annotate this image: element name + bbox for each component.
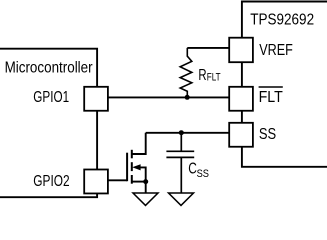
label RFLT <box>198 67 220 84</box>
ground under MOSFET <box>133 193 158 205</box>
transistor Q1 drain lead <box>132 133 146 154</box>
pin VREF box <box>229 38 253 63</box>
capacitor CSS <box>166 133 194 193</box>
pin SS box <box>229 123 253 147</box>
block TPS92692 border <box>242 2 327 167</box>
wire GPIO1 to FLT pin <box>108 96 229 98</box>
label CSS <box>188 161 209 181</box>
pin FLT label with overline <box>259 87 283 106</box>
svg-text:VREF: VREF <box>259 42 293 59</box>
pin GPIO1 box <box>84 87 108 111</box>
svg-text:FLT: FLT <box>259 89 283 106</box>
block Microcontroller border <box>0 49 97 198</box>
node junction capacitor and SS wire <box>179 130 184 135</box>
wire VREF pin to resistor top <box>187 47 229 49</box>
wire source to ground <box>145 182 147 193</box>
node source junction <box>143 179 148 184</box>
svg-text:TPS92692: TPS92692 <box>250 11 314 28</box>
svg-text:GPIO2: GPIO2 <box>33 173 69 190</box>
transistor Q1 body lead with arrow <box>132 164 146 181</box>
pin FLT box <box>229 87 253 111</box>
ground under capacitor <box>169 193 194 205</box>
svg-text:FLT: FLT <box>207 72 221 84</box>
svg-text:GPIO1: GPIO1 <box>33 89 69 106</box>
wire GPIO2 to MOSFET gate <box>108 179 127 181</box>
transistor Q1 channel segments <box>131 150 133 184</box>
svg-text:SS: SS <box>259 126 276 143</box>
svg-text:Microcontroller: Microcontroller <box>5 59 94 76</box>
transistor Q1 source lead <box>132 181 146 183</box>
svg-text:SS: SS <box>197 168 209 180</box>
node junction resistor and FLT wire <box>185 95 190 100</box>
transistor Q1 gate bar <box>126 153 128 182</box>
resistor RFLT <box>180 48 192 97</box>
svg-text:C: C <box>188 161 197 178</box>
svg-text:R: R <box>198 67 206 84</box>
pin GPIO2 box <box>84 170 108 194</box>
wire SS pin to MOSFET drain <box>146 132 230 134</box>
